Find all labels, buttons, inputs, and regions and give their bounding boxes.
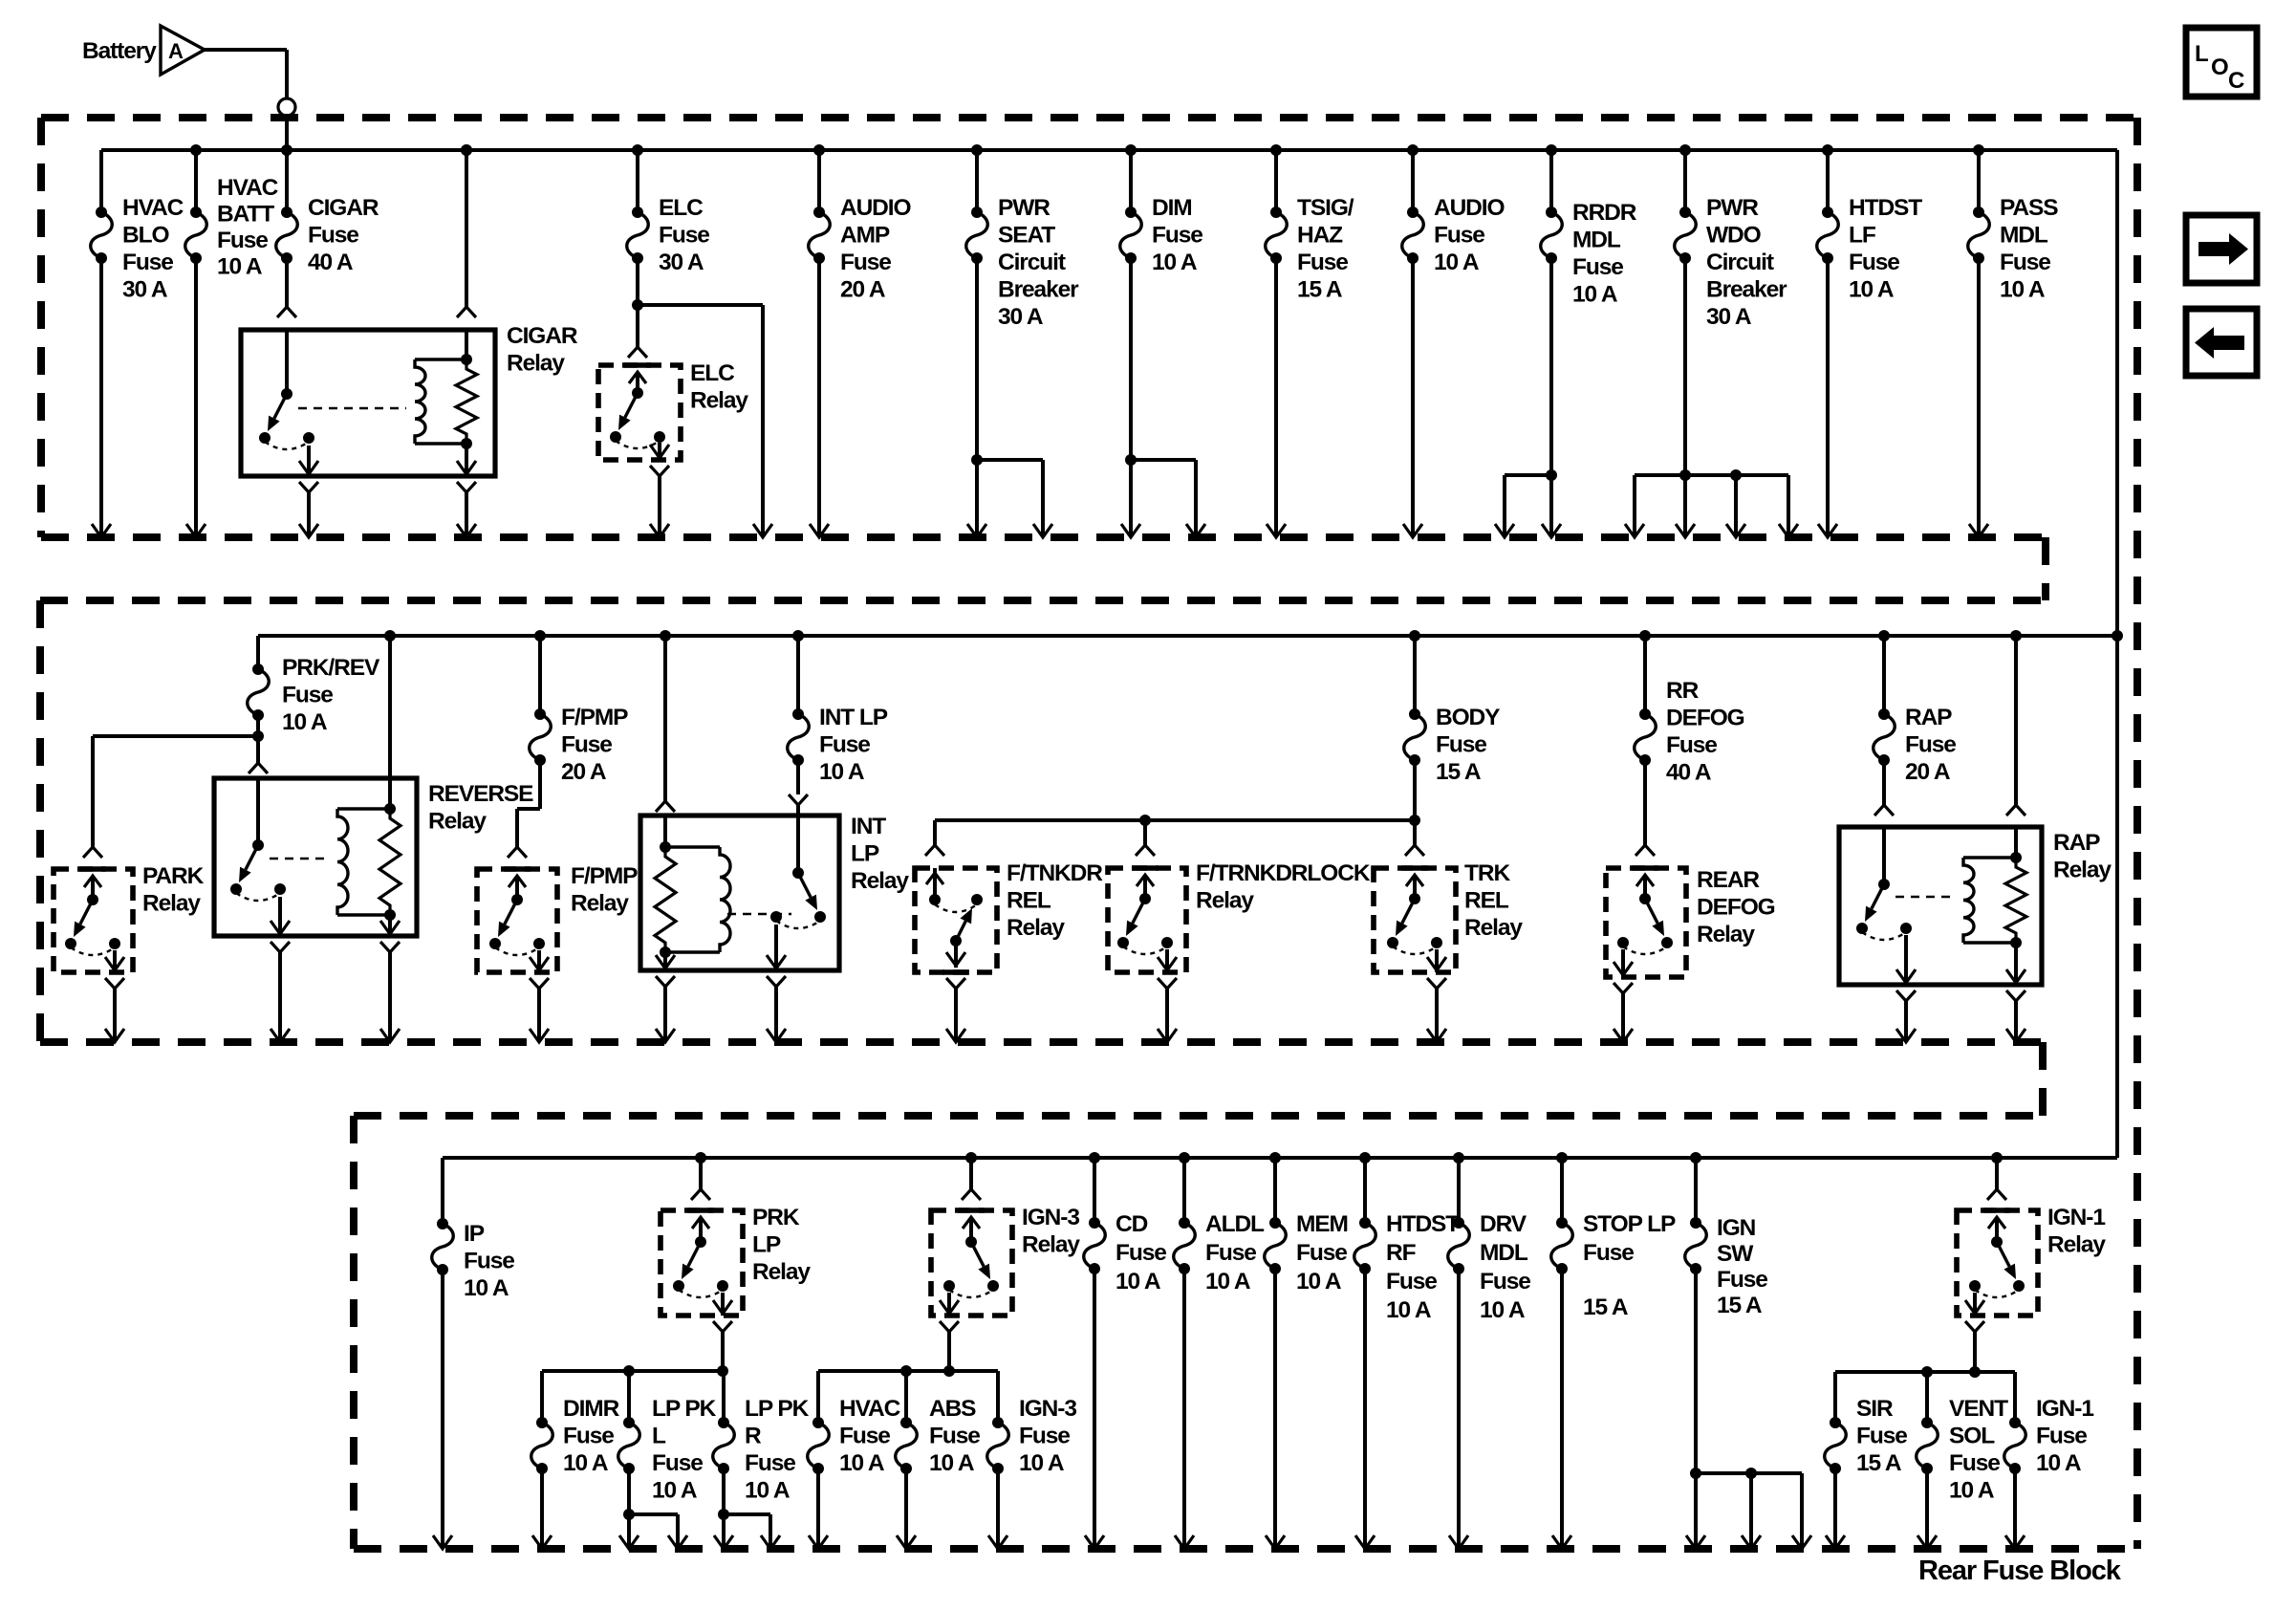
relay REVERSE coil and resistor	[337, 807, 390, 810]
svg-text:Fuse: Fuse	[819, 732, 870, 758]
svg-text:HTDST: HTDST	[1849, 195, 1922, 221]
dashed actuator link INT LP relay	[727, 913, 791, 915]
fuse PRK/REV Fuse 10 A	[256, 636, 260, 669]
wire branch to PARK relay	[93, 734, 258, 738]
svg-text:Fuse: Fuse	[1205, 1240, 1256, 1266]
svg-text:DIM: DIM	[1152, 195, 1192, 221]
relay ELC Relay dashed box	[598, 365, 681, 460]
svg-text:10 A: 10 A	[839, 1450, 885, 1476]
svg-text:Fuse: Fuse	[1116, 1240, 1166, 1266]
svg-text:10 A: 10 A	[1386, 1297, 1432, 1323]
connector below ELC relay	[650, 466, 669, 476]
svg-text:BLO: BLO	[122, 223, 169, 249]
connector below F/PMP relay	[530, 978, 549, 989]
svg-text:Fuse: Fuse	[745, 1450, 795, 1476]
svg-text:IP: IP	[464, 1221, 485, 1247]
svg-text:Fuse: Fuse	[1666, 732, 1717, 758]
svg-text:REAR: REAR	[1697, 867, 1760, 893]
svg-text:10 A: 10 A	[1949, 1478, 1995, 1504]
svg-text:MDL: MDL	[2000, 223, 2048, 249]
wire CIGAR relay coil feed	[461, 144, 472, 156]
svg-text:IGN-1: IGN-1	[2036, 1396, 2093, 1422]
relay F/TNKDR REL switch (inverted)	[933, 868, 937, 900]
connector below F/TRNKDRLOCK relay	[1158, 978, 1177, 989]
svg-text:Relay: Relay	[428, 809, 487, 835]
fuse LP PK L Fuse 10 A	[627, 1371, 631, 1423]
svg-text:Fuse: Fuse	[1152, 223, 1202, 249]
wire battery to bus	[205, 48, 287, 52]
svg-text:Fuse: Fuse	[217, 228, 268, 253]
svg-text:RAP: RAP	[2053, 830, 2100, 856]
svg-text:IGN: IGN	[1717, 1215, 1756, 1241]
svg-text:AUDIO: AUDIO	[1434, 195, 1505, 221]
fuse LP PK R Fuse 10 A	[722, 1371, 726, 1423]
node PRK/REV output junction	[256, 715, 260, 763]
relay RAP Relay box	[1839, 827, 2042, 985]
svg-text:HTDST: HTDST	[1386, 1211, 1460, 1237]
svg-text:Relay: Relay	[1196, 888, 1254, 914]
fuse HVAC Fuse 10 A	[816, 1371, 820, 1423]
svg-text:40 A: 40 A	[308, 250, 354, 275]
svg-text:10 A: 10 A	[282, 709, 328, 735]
svg-text:20 A: 20 A	[840, 277, 886, 303]
svg-text:ELC: ELC	[659, 195, 704, 221]
connector below RAP relay coil	[2006, 990, 2025, 1001]
svg-text:10 A: 10 A	[2036, 1450, 2082, 1476]
svg-text:10 A: 10 A	[1116, 1269, 1161, 1295]
svg-text:AMP: AMP	[840, 223, 890, 249]
connector below F/TNKDR REL relay	[946, 978, 965, 989]
svg-text:Fuse: Fuse	[1849, 250, 1899, 275]
relay CIGAR coil and resistor	[415, 358, 466, 360]
relay PRK LP Relay dashed box	[661, 1210, 743, 1316]
svg-text:Fuse: Fuse	[464, 1249, 514, 1274]
svg-text:20 A: 20 A	[561, 759, 607, 785]
wire STOP LP output	[1560, 1269, 1564, 1549]
svg-text:LF: LF	[1849, 223, 1876, 249]
connector below IGN-1 relay	[1965, 1321, 1984, 1332]
svg-text:ALDL: ALDL	[1205, 1211, 1265, 1237]
relay INT LP switch	[796, 816, 800, 873]
connector below CIGAR relay switch	[299, 482, 318, 492]
svg-text:Fuse: Fuse	[652, 1450, 703, 1476]
fuse IGN-3 Fuse 10 A	[996, 1371, 1000, 1423]
svg-text:IGN-3: IGN-3	[1019, 1396, 1076, 1422]
wire IP fuse output	[441, 1270, 444, 1549]
svg-text:F/PMP: F/PMP	[561, 705, 628, 730]
svg-text:Fuse: Fuse	[1296, 1240, 1347, 1266]
svg-text:Relay: Relay	[571, 891, 629, 917]
wire ELC relay output	[658, 476, 661, 537]
fuse IGN SW Fuse 15 A	[1694, 1158, 1698, 1223]
svg-text:MDL: MDL	[1480, 1240, 1528, 1266]
fuse HVAC BATT Fuse 10 A	[194, 150, 198, 212]
connector above REVERSE relay switch	[249, 763, 268, 773]
connector below PARK relay	[105, 978, 124, 989]
wire IGN-1 relay output to bus	[1973, 1332, 1977, 1372]
svg-text:10 A: 10 A	[1434, 250, 1480, 275]
svg-text:Relay: Relay	[1464, 915, 1523, 941]
wire RRDR MDL outputs fork	[1549, 258, 1553, 537]
svg-text:BODY: BODY	[1436, 705, 1500, 730]
relay INT LP coil and resistor	[665, 845, 720, 848]
svg-text:A: A	[168, 39, 184, 63]
svg-text:15 A: 15 A	[1297, 277, 1343, 303]
connector below PRK LP relay	[713, 1321, 732, 1332]
svg-text:Fuse: Fuse	[2000, 250, 2050, 275]
svg-text:L: L	[2195, 41, 2208, 67]
svg-text:DRV: DRV	[1480, 1211, 1527, 1237]
relay TRK REL switch	[1401, 865, 1428, 871]
svg-text:Relay: Relay	[752, 1259, 811, 1285]
svg-text:MDL: MDL	[1572, 228, 1621, 253]
svg-text:10 A: 10 A	[745, 1478, 791, 1504]
svg-text:Breaker: Breaker	[1706, 277, 1787, 303]
svg-text:RF: RF	[1386, 1240, 1417, 1266]
svg-text:IGN-1: IGN-1	[2047, 1205, 2105, 1230]
svg-text:30 A: 30 A	[998, 304, 1044, 330]
svg-text:INT LP: INT LP	[819, 705, 888, 730]
svg-text:30 A: 30 A	[659, 250, 704, 275]
dashed actuator link CIGAR relay	[298, 407, 406, 409]
svg-text:Fuse: Fuse	[282, 683, 333, 708]
relay PRK LP switch	[687, 1207, 714, 1213]
relay IGN-1 Relay dashed box	[1957, 1210, 2038, 1316]
dashed actuator link REVERSE relay	[270, 858, 330, 859]
node BODY fuse distribution	[1413, 760, 1417, 841]
relay RAP switch	[1882, 827, 1886, 884]
svg-text:30 A: 30 A	[1706, 304, 1752, 330]
svg-text:Fuse: Fuse	[563, 1424, 614, 1449]
connector below REVERSE relay switch	[271, 942, 290, 952]
legend LOC box	[2186, 28, 2257, 97]
fuse CD Fuse 10 A	[1093, 1158, 1096, 1223]
dashed actuator link RAP relay	[1895, 896, 1956, 898]
fuse BODY Fuse 15 A	[1413, 636, 1417, 714]
svg-text:HVAC: HVAC	[122, 195, 184, 221]
legend right arrow box	[2186, 215, 2257, 283]
wire INT LP relay switch output	[774, 987, 778, 1042]
relay TRK REL Relay dashed box	[1374, 868, 1456, 972]
fuse HVAC BLO Fuse 30 A	[99, 150, 103, 212]
svg-text:TRK: TRK	[1464, 860, 1510, 886]
op-amp CIGAR Relay box	[241, 330, 495, 476]
relay RAP coil and resistor	[1963, 856, 2016, 859]
fuse RR DEFOG Fuse 40 A	[1643, 636, 1647, 714]
svg-text:Fuse: Fuse	[2036, 1424, 2087, 1449]
connector below TRK REL relay	[1427, 978, 1446, 989]
svg-text:Fuse: Fuse	[1480, 1269, 1530, 1295]
relay F/PMP Relay dashed box	[477, 869, 557, 972]
svg-text:10 A: 10 A	[1572, 282, 1618, 308]
svg-text:10 A: 10 A	[1019, 1450, 1065, 1476]
svg-text:REVERSE: REVERSE	[428, 781, 533, 807]
connector below CIGAR relay coil	[457, 482, 476, 492]
svg-text:Fuse: Fuse	[1583, 1240, 1634, 1266]
svg-text:Fuse: Fuse	[1856, 1424, 1907, 1449]
node B+ bus section 1	[101, 148, 2117, 152]
wire F/PMP relay output	[537, 989, 541, 1042]
svg-text:RAP: RAP	[1905, 705, 1952, 730]
svg-text:10 A: 10 A	[819, 759, 865, 785]
svg-text:Circuit: Circuit	[1706, 250, 1774, 275]
wire RAP relay coil feed	[2014, 636, 2018, 805]
relay PARK switch	[79, 866, 106, 872]
wire CIGAR relay coil return	[465, 492, 468, 537]
fuse PWR SEAT Circuit Breaker 30 A	[975, 150, 979, 212]
relay INT LP Relay box	[640, 816, 839, 970]
connector below REVERSE relay coil	[380, 942, 400, 952]
fuse SIR Fuse 15 A	[1833, 1372, 1837, 1423]
wire PRK LP relay output to lamp bus	[721, 1332, 725, 1371]
svg-text:ELC: ELC	[690, 360, 735, 386]
svg-text:DIMR: DIMR	[563, 1396, 620, 1422]
fuse ABS Fuse 10 A	[904, 1371, 908, 1423]
svg-text:Relay: Relay	[142, 891, 201, 917]
svg-text:Relay: Relay	[1697, 922, 1755, 947]
svg-text:RR: RR	[1666, 678, 1700, 704]
svg-text:SOL: SOL	[1949, 1424, 1995, 1449]
svg-text:Fuse: Fuse	[1019, 1424, 1070, 1449]
connector above RAP relay switch	[1882, 760, 1886, 805]
svg-text:PWR: PWR	[998, 195, 1051, 221]
connector above ELC relay	[628, 347, 647, 358]
svg-text:15 A: 15 A	[1583, 1295, 1629, 1320]
fuse STOP LP Fuse 15 A	[1560, 1158, 1564, 1223]
fuse IP Fuse 10 A	[441, 1158, 444, 1224]
svg-text:DEFOG: DEFOG	[1697, 895, 1775, 921]
relay PARK Relay dashed box	[54, 869, 133, 972]
svg-text:15 A: 15 A	[1717, 1293, 1763, 1318]
svg-text:PRK: PRK	[752, 1205, 800, 1230]
svg-text:F/TNKDR: F/TNKDR	[1007, 860, 1103, 886]
wire TRK REL relay output	[1435, 989, 1439, 1042]
fuse RAP Fuse 20 A	[1882, 636, 1886, 714]
fuse PWR WDO Circuit Breaker 30 A	[1683, 150, 1687, 212]
svg-text:40 A: 40 A	[1666, 760, 1712, 786]
connector above F/PMP relay	[508, 847, 527, 858]
wire ELC branch right	[638, 303, 763, 307]
fuse DIM Fuse 10 A	[1129, 150, 1133, 212]
fuse block dashed border section 2	[40, 597, 2046, 604]
svg-text:Fuse: Fuse	[1905, 732, 1956, 758]
svg-text:10 A: 10 A	[1296, 1269, 1342, 1295]
wire RAP relay coil return	[2014, 1001, 2018, 1042]
svg-text:L: L	[652, 1424, 666, 1449]
svg-text:HVAC: HVAC	[839, 1396, 901, 1422]
svg-text:Fuse: Fuse	[1434, 223, 1484, 249]
connector below RAP relay switch	[1896, 990, 1916, 1001]
fuse F/PMP Fuse 20 A	[538, 636, 542, 714]
connector above INT LP relay	[796, 760, 800, 794]
svg-text:Fuse: Fuse	[1386, 1269, 1437, 1295]
wire INT LP relay coil return	[663, 987, 667, 1042]
svg-text:Fuse: Fuse	[122, 250, 173, 275]
svg-text:F/TRNKDRLOCK: F/TRNKDRLOCK	[1196, 860, 1371, 886]
svg-text:15 A: 15 A	[1856, 1450, 1902, 1476]
connector above F/TNKDR REL relay	[925, 845, 944, 856]
connector above REAR DEFOG relay	[1643, 760, 1647, 845]
svg-text:MEM: MEM	[1296, 1211, 1348, 1237]
svg-text:CD: CD	[1116, 1211, 1148, 1237]
connector below INT LP relay coil	[656, 976, 675, 987]
fuse TSIG/ HAZ Fuse 15 A	[1274, 150, 1278, 212]
svg-text:F/PMP: F/PMP	[571, 863, 638, 889]
svg-text:10 A: 10 A	[217, 254, 263, 280]
svg-text:Relay: Relay	[507, 351, 565, 377]
fuse RRDR MDL Fuse 10 A	[1549, 150, 1553, 212]
svg-text:Breaker: Breaker	[998, 277, 1079, 303]
svg-text:Battery: Battery	[82, 38, 157, 64]
fuse block dashed border right edge	[2134, 118, 2141, 1549]
svg-text:Relay: Relay	[1022, 1232, 1080, 1258]
svg-text:SW: SW	[1717, 1241, 1754, 1267]
svg-text:Fuse: Fuse	[659, 223, 709, 249]
svg-text:15 A: 15 A	[1436, 759, 1482, 785]
svg-text:10 A: 10 A	[2000, 277, 2046, 303]
svg-text:10 A: 10 A	[1152, 250, 1198, 275]
wire BODY branch left	[935, 818, 1415, 822]
fuse AUDIO AMP Fuse 20 A	[817, 150, 821, 212]
svg-text:Fuse: Fuse	[561, 732, 612, 758]
wire INT LP relay coil feed	[663, 636, 667, 801]
relay REAR DEFOG Relay dashed box	[1606, 868, 1686, 977]
relay F/PMP switch	[504, 866, 531, 872]
svg-text:Fuse: Fuse	[1436, 732, 1486, 758]
svg-text:CIGAR: CIGAR	[308, 195, 379, 221]
svg-text:REL: REL	[1007, 888, 1051, 914]
svg-text:VENT: VENT	[1949, 1396, 2008, 1422]
node lamp bus	[542, 1369, 724, 1373]
node bus section 2	[258, 634, 2117, 638]
connector below IGN-3 relay	[940, 1321, 959, 1332]
svg-text:Relay: Relay	[851, 868, 909, 894]
fuse MEM Fuse 10 A	[1273, 1158, 1277, 1223]
wire RAP relay switch output	[1904, 1001, 1908, 1042]
svg-text:Relay: Relay	[2053, 858, 2112, 883]
svg-text:REL: REL	[1464, 888, 1509, 914]
fuse ELC Fuse 30 A	[636, 150, 639, 212]
relay F/TNKDR REL Relay dashed box	[915, 868, 997, 972]
fuse INT LP Fuse 10 A	[796, 636, 800, 714]
connector above PARK relay	[83, 847, 102, 858]
wire PARK relay output	[113, 989, 117, 1042]
fuse HTDST RF Fuse 10 A	[1363, 1158, 1367, 1223]
svg-text:STOP LP: STOP LP	[1583, 1211, 1676, 1237]
wire PWR WDO outputs fork	[1683, 258, 1687, 537]
fuse CIGAR Fuse 40 A	[285, 150, 289, 212]
svg-text:SEAT: SEAT	[998, 223, 1055, 249]
svg-text:10 A: 10 A	[929, 1450, 975, 1476]
svg-text:Fuse: Fuse	[840, 250, 891, 275]
svg-text:Circuit: Circuit	[998, 250, 1066, 275]
relay IGN-1 switch	[1983, 1207, 2010, 1213]
node IGN-1 bus	[1835, 1370, 2015, 1374]
fuse block dashed border section 1	[41, 114, 2137, 121]
svg-text:PRK/REV: PRK/REV	[282, 655, 380, 681]
connector above TRK REL relay	[1413, 841, 1417, 845]
svg-text:30 A: 30 A	[122, 277, 168, 303]
svg-text:PWR: PWR	[1706, 195, 1759, 221]
fuse DRV MDL Fuse 10 A	[1457, 1158, 1461, 1223]
svg-text:Fuse: Fuse	[929, 1424, 980, 1449]
svg-text:BATT: BATT	[217, 202, 274, 228]
fuse PASS MDL Fuse 10 A	[1977, 150, 1981, 212]
relay IGN-3 Relay dashed box	[931, 1210, 1012, 1316]
svg-text:HAZ: HAZ	[1297, 223, 1343, 249]
wire DIM outputs fork	[1129, 258, 1133, 537]
wire F/TNKDR REL relay output	[954, 989, 958, 1042]
svg-text:10 A: 10 A	[1205, 1269, 1251, 1295]
svg-text:CIGAR: CIGAR	[507, 323, 578, 349]
connector above PRK LP relay	[699, 1158, 703, 1189]
relay ELC switch	[624, 362, 651, 368]
wire LP PK L outputs fork	[627, 1469, 631, 1549]
svg-text:Fuse: Fuse	[1297, 250, 1348, 275]
wire REAR DEFOG relay output	[1621, 993, 1625, 1042]
connector below REAR DEFOG relay	[1614, 983, 1633, 993]
node ELC fuse output junction	[636, 258, 639, 347]
relay REVERSE switch	[256, 778, 260, 845]
svg-text:10 A: 10 A	[563, 1450, 609, 1476]
fuse DIMR Fuse 10 A	[540, 1371, 544, 1423]
svg-text:Fuse: Fuse	[308, 223, 358, 249]
svg-text:10 A: 10 A	[1480, 1297, 1526, 1323]
wire F/TRNKDRLOCK relay output	[1165, 989, 1169, 1042]
svg-text:Fuse: Fuse	[1949, 1450, 2000, 1476]
svg-text:SIR: SIR	[1856, 1396, 1894, 1422]
relay REAR DEFOG switch	[1632, 865, 1658, 871]
svg-text:Fuse: Fuse	[839, 1424, 890, 1449]
svg-text:10 A: 10 A	[1849, 277, 1895, 303]
svg-text:Relay: Relay	[690, 388, 748, 414]
svg-text:AUDIO: AUDIO	[840, 195, 911, 221]
wire REVERSE relay coil feed	[388, 636, 392, 809]
svg-text:ABS: ABS	[929, 1396, 976, 1422]
svg-text:TSIG/: TSIG/	[1297, 195, 1354, 221]
svg-text:Fuse: Fuse	[1717, 1267, 1767, 1293]
svg-text:LP PK: LP PK	[652, 1396, 717, 1422]
relay F/TRNKDRLOCK switch	[1132, 865, 1159, 871]
wire PWR SEAT outputs fork	[975, 258, 979, 537]
connector below INT LP relay switch	[767, 976, 786, 987]
svg-text:WDO: WDO	[1706, 223, 1762, 249]
fuse VENT SOL Fuse 10 A	[1925, 1372, 1929, 1423]
fuse HTDST LF Fuse 10 A	[1826, 150, 1830, 212]
svg-text:Rear Fuse Block: Rear Fuse Block	[1918, 1556, 2122, 1586]
svg-text:Fuse: Fuse	[1572, 254, 1623, 280]
wire IGN SW outputs fork	[1694, 1269, 1698, 1549]
battery symbol A	[161, 26, 205, 75]
fuse ALDL Fuse 10 A	[1182, 1158, 1186, 1223]
svg-text:HVAC: HVAC	[217, 175, 279, 201]
svg-text:Relay: Relay	[1007, 915, 1065, 941]
legend left arrow box	[2186, 309, 2257, 376]
fuse IGN-1 Fuse 10 A	[2013, 1372, 2017, 1423]
relay F/TRNKDRLOCK Relay dashed box	[1108, 868, 1186, 972]
svg-text:RRDR: RRDR	[1572, 200, 1637, 226]
wire IGN-3 relay output to bus	[947, 1332, 951, 1371]
svg-text:DEFOG: DEFOG	[1666, 706, 1744, 731]
svg-text:LP: LP	[851, 841, 879, 867]
wire CIGAR relay switch output	[307, 492, 311, 537]
wire CIGAR fuse to CIGAR relay	[285, 258, 289, 307]
svg-text:PASS: PASS	[2000, 195, 2058, 221]
connector circle on battery feed	[278, 98, 295, 116]
svg-text:10 A: 10 A	[464, 1275, 509, 1301]
svg-text:C: C	[2228, 68, 2244, 94]
wire REVERSE relay switch output	[278, 952, 282, 1042]
